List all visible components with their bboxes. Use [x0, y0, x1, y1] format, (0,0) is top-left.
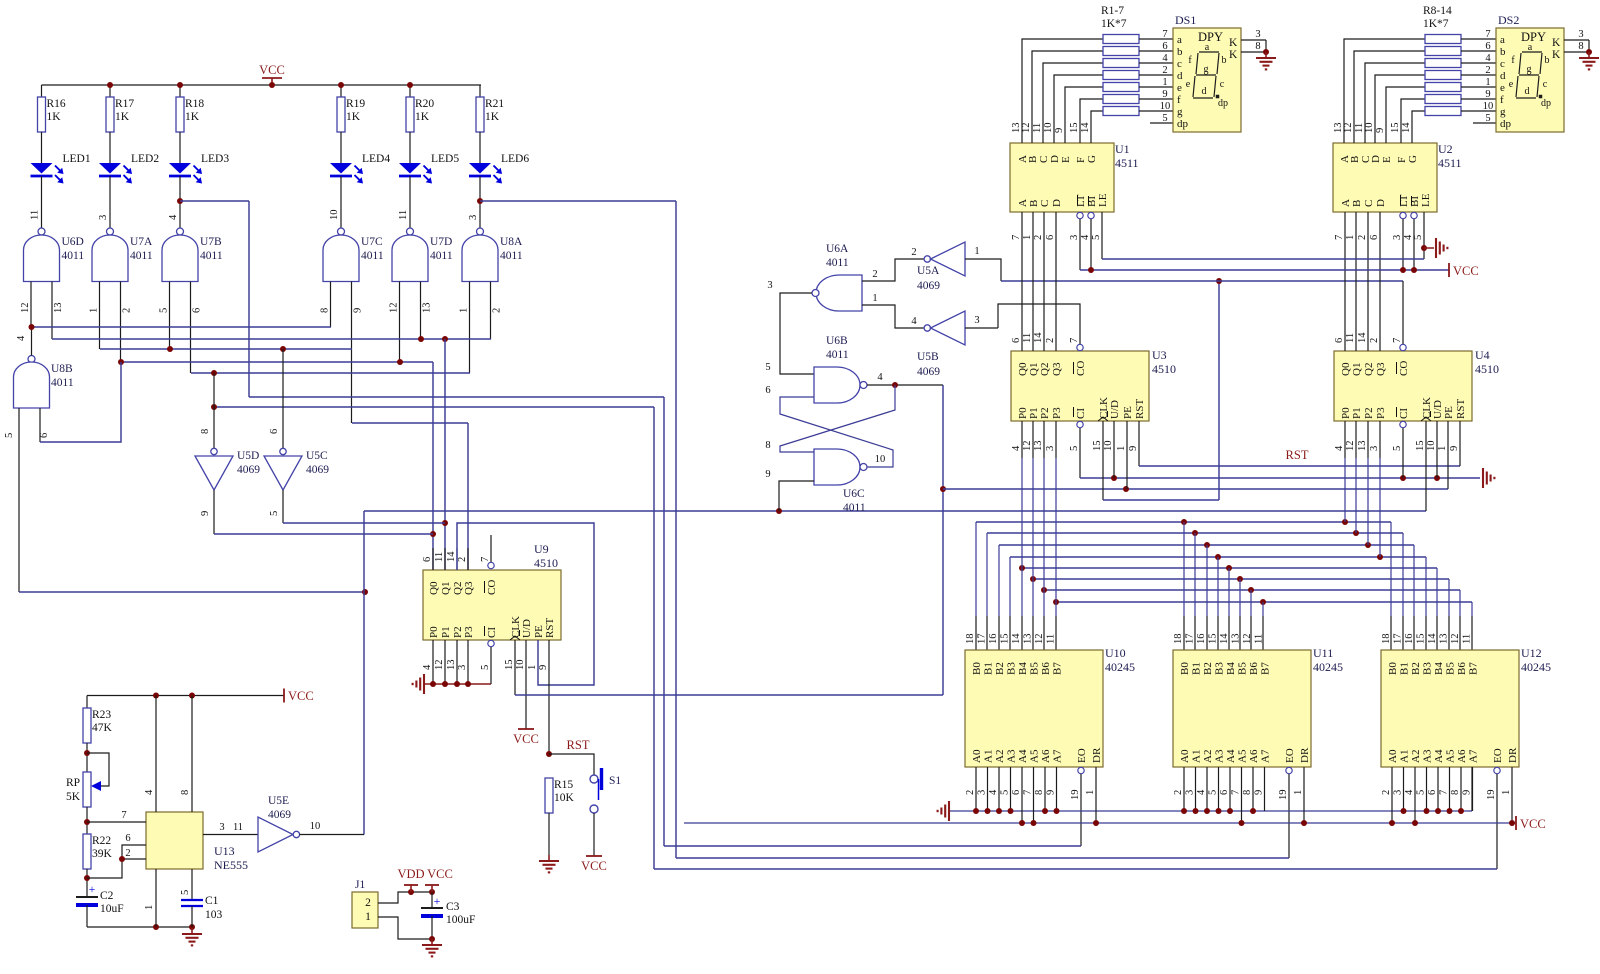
svg-text:DPY: DPY — [1198, 30, 1223, 44]
svg-text:K: K — [1552, 49, 1561, 61]
svg-text:10: 10 — [1043, 123, 1054, 134]
svg-text:10: 10 — [310, 821, 321, 832]
svg-text:1: 1 — [1162, 77, 1167, 88]
svg-text:1: 1 — [1022, 235, 1033, 240]
svg-text:K: K — [1552, 37, 1561, 49]
svg-text:f: f — [1177, 94, 1181, 106]
7-segment display DS1 — [1173, 28, 1241, 132]
svg-text:11: 11 — [1254, 634, 1265, 644]
svg-text:d: d — [1202, 86, 1207, 97]
svg-text:12: 12 — [1021, 123, 1032, 134]
data bus line 4 — [1022, 567, 1437, 569]
7-seg glyph DS2 — [1522, 51, 1542, 53]
svg-text:B6: B6 — [1456, 662, 1468, 675]
J1 pin 2 wire to VDD/VCC node — [378, 892, 432, 903]
U9 CLK wire — [514, 640, 516, 695]
svg-text:15: 15 — [1000, 634, 1011, 645]
ground — [1265, 52, 1267, 58]
svg-text:K: K — [1229, 49, 1238, 61]
svg-text:DS2: DS2 — [1498, 13, 1519, 27]
svg-text:EO: EO — [1492, 748, 1504, 763]
U3 CI stub — [1077, 421, 1083, 427]
svg-text:P3: P3 — [1375, 407, 1387, 419]
svg-text:1K: 1K — [185, 111, 200, 123]
svg-text:3: 3 — [1185, 790, 1196, 795]
svg-text:B0: B0 — [971, 662, 983, 675]
svg-text:U6A: U6A — [826, 243, 849, 255]
svg-text:7: 7 — [1334, 235, 1345, 240]
svg-text:dp: dp — [1177, 118, 1189, 130]
U10 EO bubble and wire — [1078, 767, 1084, 773]
buffer U12 40245 — [1381, 650, 1519, 767]
svg-text:4: 4 — [1196, 789, 1207, 795]
svg-text:U3: U3 — [1152, 348, 1167, 362]
svg-text:3: 3 — [767, 280, 772, 291]
svg-text:7: 7 — [1439, 790, 1450, 795]
svg-text:1K*7: 1K*7 — [1101, 18, 1127, 30]
svg-text:19: 19 — [1486, 790, 1497, 801]
svg-text:4011: 4011 — [500, 250, 523, 262]
svg-text:4510: 4510 — [1475, 362, 1499, 376]
U10 B4-B7 riser stubs — [1021, 616, 1023, 650]
node LED6 junction to vertical feed — [477, 198, 483, 204]
svg-text:13: 13 — [1023, 634, 1034, 645]
U5A input wire from U4 CO — [965, 259, 1001, 281]
data bus line 5 — [1033, 578, 1449, 580]
svg-text:5: 5 — [1413, 235, 1424, 240]
wires resistor network to DS1 — [1139, 38, 1173, 40]
resistor R22 39K — [83, 834, 91, 869]
svg-text:10: 10 — [1103, 441, 1114, 452]
svg-text:LED4: LED4 — [362, 153, 390, 165]
wire U5D input riser — [213, 373, 215, 448]
IC U2 4511 — [1333, 143, 1437, 212]
svg-text:B3: B3 — [1422, 662, 1434, 675]
wire dp stub DS1 — [1150, 122, 1173, 124]
svg-text:1: 1 — [527, 665, 538, 670]
svg-text:B6: B6 — [1040, 662, 1052, 675]
LED LED1 — [31, 163, 53, 174]
svg-text:4: 4 — [168, 214, 179, 220]
resistor R17 1K — [106, 97, 114, 132]
svg-text:4: 4 — [1404, 789, 1415, 795]
svg-text:16: 16 — [1196, 634, 1207, 645]
svg-text:1: 1 — [365, 911, 371, 923]
svg-text:6: 6 — [1162, 41, 1167, 52]
svg-text:3: 3 — [1069, 235, 1080, 240]
svg-text:G: G — [1086, 155, 1098, 163]
svg-text:6: 6 — [192, 308, 203, 313]
svg-text:7: 7 — [1231, 790, 1242, 795]
RP wiper loop wire — [87, 753, 109, 786]
U5E output wire — [300, 834, 364, 836]
svg-text:e: e — [1500, 82, 1505, 94]
ground — [1588, 52, 1590, 58]
svg-text:9: 9 — [1449, 446, 1460, 451]
svg-text:Q1: Q1 — [1351, 363, 1363, 376]
svg-text:A3: A3 — [1214, 749, 1226, 763]
svg-text:U6D: U6D — [62, 236, 84, 248]
svg-text:5: 5 — [1208, 790, 1219, 795]
svg-text:B1: B1 — [983, 662, 995, 675]
svg-text:a: a — [1205, 42, 1210, 53]
svg-text:8: 8 — [1450, 790, 1461, 795]
svg-text:12: 12 — [1022, 441, 1033, 452]
svg-text:R23: R23 — [92, 709, 111, 721]
svg-text:RP: RP — [66, 777, 80, 789]
svg-text:A6: A6 — [1248, 749, 1260, 763]
svg-text:18: 18 — [965, 634, 976, 645]
svg-text:6: 6 — [39, 433, 50, 438]
U9 Q2 to PE loop — [457, 523, 594, 685]
svg-text:7: 7 — [1162, 29, 1167, 40]
svg-text:7: 7 — [1069, 338, 1080, 343]
svg-text:a: a — [1500, 34, 1505, 46]
IC U9 4510 — [423, 570, 561, 640]
svg-text:P1: P1 — [1351, 407, 1363, 419]
svg-text:J1: J1 — [355, 879, 365, 891]
svg-text:EO: EO — [1284, 748, 1296, 763]
ground stub U2 LE — [1424, 247, 1434, 249]
svg-text:5: 5 — [4, 433, 15, 438]
svg-text:C1: C1 — [205, 895, 219, 907]
svg-text:15: 15 — [1416, 634, 1427, 645]
svg-text:3: 3 — [457, 665, 468, 670]
NAND gate U6B 4011 (right facing) — [814, 367, 860, 403]
svg-text:1: 1 — [1085, 790, 1096, 795]
wire U5E clock riser — [363, 511, 365, 835]
svg-text:A6: A6 — [1040, 749, 1052, 763]
svg-text:B3: B3 — [1214, 662, 1226, 675]
SR latch cross wire 1 — [780, 385, 895, 452]
enable line from U5D net riser to U12 EO — [653, 407, 655, 869]
svg-text:A0: A0 — [1179, 749, 1191, 763]
wire LED5 to gate U7D — [409, 176, 411, 228]
svg-text:2: 2 — [1357, 235, 1368, 240]
svg-text:Q2: Q2 — [1363, 363, 1375, 376]
NE555 bottom rail — [87, 926, 192, 928]
U4 RST leg — [1459, 421, 1461, 466]
U2 BI bubble and leg — [1411, 212, 1417, 218]
ground — [948, 801, 950, 821]
svg-text:19: 19 — [1070, 790, 1081, 801]
svg-text:3: 3 — [1045, 446, 1056, 451]
svg-text:U7A: U7A — [130, 236, 153, 248]
wire LED3 to gate U7B — [179, 176, 181, 228]
wire U5C.5 to Q1 node — [283, 522, 445, 524]
svg-text:A0: A0 — [971, 749, 983, 763]
U1 data input legs from U3 — [1021, 212, 1023, 351]
svg-text:B3: B3 — [1006, 662, 1018, 675]
svg-text:A1: A1 — [983, 750, 995, 763]
U9 Q pin black stubs — [432, 548, 434, 570]
wire LED1 to gate U6D — [41, 176, 43, 228]
svg-text:12: 12 — [1345, 441, 1356, 452]
svg-text:B5: B5 — [1445, 662, 1457, 675]
U2 LE leg — [1423, 212, 1425, 259]
resistor R20 1K — [406, 97, 414, 132]
svg-text:g: g — [1177, 106, 1183, 118]
svg-text:9: 9 — [1375, 128, 1386, 133]
svg-text:P2: P2 — [1363, 407, 1375, 419]
svg-text:VCC: VCC — [1520, 817, 1546, 831]
U13 pin 2 wire — [87, 859, 146, 878]
ground — [191, 928, 193, 934]
svg-text:9: 9 — [200, 511, 211, 516]
svg-text:U5D: U5D — [237, 450, 259, 462]
svg-text:e: e — [1509, 79, 1514, 90]
wire R21 to LED6 — [479, 132, 481, 163]
svg-text:LED5: LED5 — [431, 153, 459, 165]
U10 B0-B3 risers — [975, 522, 977, 616]
svg-text:B7: B7 — [1468, 662, 1480, 675]
U9 U/D to VCC — [525, 640, 527, 729]
VCC rail NE555 — [87, 695, 284, 697]
svg-text:8: 8 — [1255, 41, 1260, 52]
svg-text:Q2: Q2 — [1039, 363, 1051, 376]
svg-text:U8B: U8B — [51, 363, 73, 375]
svg-text:4: 4 — [1162, 53, 1168, 64]
svg-text:d: d — [1500, 70, 1506, 82]
svg-text:13: 13 — [422, 303, 433, 314]
wire VCC rail to R17 — [109, 85, 111, 97]
svg-text:U7D: U7D — [430, 236, 452, 248]
svg-text:R15: R15 — [554, 779, 573, 791]
U1 BI bubble and leg — [1088, 212, 1094, 218]
svg-text:P2: P2 — [1039, 407, 1051, 419]
svg-text:DR: DR — [1507, 747, 1519, 763]
svg-text:6: 6 — [1485, 41, 1490, 52]
svg-text:U5A: U5A — [917, 265, 940, 277]
node LED3 junction to vertical feed — [177, 198, 183, 204]
svg-text:9: 9 — [1462, 790, 1473, 795]
U5B input wire from U3 CO — [965, 327, 998, 329]
svg-text:4069: 4069 — [306, 464, 329, 476]
svg-text:4011: 4011 — [826, 257, 849, 269]
svg-text:16: 16 — [1404, 634, 1415, 645]
svg-text:40245: 40245 — [1313, 660, 1343, 674]
svg-text:c: c — [1500, 58, 1505, 70]
svg-text:S1: S1 — [609, 775, 621, 787]
svg-text:U13: U13 — [214, 844, 235, 858]
svg-text:U/D: U/D — [521, 619, 533, 638]
svg-text:4011: 4011 — [826, 349, 849, 361]
svg-text:3: 3 — [1578, 29, 1583, 40]
connector J1 — [352, 892, 378, 928]
svg-text:A5: A5 — [1445, 749, 1457, 763]
svg-text:6: 6 — [1427, 790, 1438, 795]
wire LE net U1-U2 — [1102, 258, 1424, 260]
svg-text:4: 4 — [988, 789, 999, 795]
wire LED2 to gate U7A — [109, 176, 111, 228]
svg-text:5: 5 — [1069, 446, 1080, 451]
svg-text:10: 10 — [329, 210, 340, 221]
svg-text:B5: B5 — [1237, 662, 1249, 675]
svg-text:9: 9 — [353, 308, 364, 313]
svg-text:RST: RST — [1286, 448, 1309, 462]
svg-text:9: 9 — [1162, 89, 1167, 100]
data bus line 1 — [987, 532, 1403, 534]
svg-text:dp: dp — [1500, 118, 1512, 130]
svg-text:A4: A4 — [1433, 749, 1445, 763]
svg-text:g: g — [1500, 106, 1506, 118]
svg-text:B6: B6 — [1248, 662, 1260, 675]
svg-text:4069: 4069 — [237, 464, 260, 476]
svg-text:A4: A4 — [1225, 749, 1237, 763]
inverter U5B 4069 (left facing) — [924, 325, 930, 331]
NAND gate U7B 4011 — [177, 228, 184, 235]
svg-text:LE: LE — [1097, 193, 1109, 207]
svg-text:Q1: Q1 — [440, 582, 452, 595]
DR legs to VCC rail — [1095, 767, 1097, 823]
svg-text:14: 14 — [1033, 332, 1044, 343]
NAND gate U8A 4011 — [477, 228, 484, 235]
wire R15 to ground — [548, 813, 550, 855]
svg-text:c: c — [1177, 58, 1182, 70]
svg-text:10: 10 — [515, 660, 526, 671]
svg-text:DS1: DS1 — [1175, 13, 1196, 27]
svg-text:C2: C2 — [100, 890, 114, 902]
wire U4 CO to U5A input — [1001, 280, 1403, 282]
svg-text:10uF: 10uF — [100, 903, 124, 915]
svg-text:+: + — [434, 894, 441, 908]
svg-text:3: 3 — [1392, 235, 1403, 240]
svg-text:2: 2 — [965, 790, 976, 795]
U1 LT bubble and leg — [1077, 212, 1083, 218]
data bus line 6 — [1044, 589, 1460, 591]
svg-text:DPY: DPY — [1521, 30, 1546, 44]
svg-text:13: 13 — [1357, 441, 1368, 452]
VCC power rail top-left — [42, 84, 482, 86]
svg-text:3: 3 — [1393, 790, 1404, 795]
U2 LT bubble and leg — [1400, 212, 1406, 218]
svg-text:5: 5 — [1000, 790, 1011, 795]
LED LED2 — [99, 163, 121, 174]
U13 pin 1 leg — [155, 869, 157, 927]
svg-text:A7: A7 — [1468, 749, 1480, 763]
svg-text:Q3: Q3 — [1375, 362, 1387, 376]
svg-text:U8A: U8A — [500, 236, 523, 248]
U6B output wire — [867, 384, 943, 386]
svg-text:A7: A7 — [1260, 749, 1272, 763]
svg-text:G: G — [1407, 155, 1419, 163]
buffer U10 40245 — [965, 650, 1103, 767]
wire VCC rail to R20 — [409, 85, 411, 97]
svg-text:DR: DR — [1091, 747, 1103, 763]
svg-text:R22: R22 — [92, 835, 111, 847]
svg-text:11: 11 — [233, 822, 243, 833]
svg-text:5: 5 — [180, 890, 191, 895]
wire U5C output — [282, 490, 284, 523]
svg-text:1: 1 — [1501, 790, 1512, 795]
svg-text:A5: A5 — [1029, 749, 1041, 763]
svg-text:A7: A7 — [1052, 749, 1064, 763]
svg-text:15: 15 — [1415, 441, 1426, 452]
U9 RST wire to R15 node — [548, 640, 550, 754]
svg-text:A5: A5 — [1237, 749, 1249, 763]
U11 A-pin legs — [1183, 767, 1185, 811]
svg-text:A6: A6 — [1456, 749, 1468, 763]
svg-text:13: 13 — [53, 303, 64, 314]
VCC symbol top rail — [271, 78, 273, 85]
U9 CI stub to ground rail — [488, 640, 494, 646]
svg-text:4011: 4011 — [51, 377, 74, 389]
svg-text:f: f — [1500, 94, 1504, 106]
wire U5C input riser — [282, 349, 284, 448]
resistor R15 10K — [545, 778, 553, 813]
NAND gate U7D 4011 — [407, 228, 414, 235]
svg-text:A1: A1 — [1191, 750, 1203, 763]
svg-text:B4: B4 — [1017, 662, 1029, 675]
svg-text:8: 8 — [200, 429, 211, 434]
U11 B risers — [1183, 522, 1185, 616]
svg-text:B2: B2 — [994, 662, 1006, 675]
svg-text:B4: B4 — [1225, 662, 1237, 675]
svg-text:12: 12 — [1034, 634, 1045, 645]
svg-text:A0: A0 — [1387, 749, 1399, 763]
switch S1 — [590, 775, 598, 783]
vertical feed to U9.Q0 — [432, 362, 434, 570]
node RST junction — [546, 751, 552, 757]
svg-text:9: 9 — [1128, 446, 1139, 451]
svg-text:5: 5 — [1162, 113, 1167, 124]
svg-text:C: C — [1363, 200, 1375, 207]
svg-text:R16: R16 — [47, 98, 66, 110]
svg-text:B5: B5 — [1029, 662, 1041, 675]
svg-text:RST: RST — [567, 738, 590, 752]
svg-text:3: 3 — [977, 790, 988, 795]
svg-text:2: 2 — [125, 848, 130, 859]
IC U13 NE555 — [146, 812, 203, 869]
svg-text:4510: 4510 — [1152, 362, 1176, 376]
svg-text:4011: 4011 — [130, 250, 153, 262]
VDD symbol — [410, 885, 412, 892]
svg-text:A3: A3 — [1422, 749, 1434, 763]
svg-text:2: 2 — [1173, 790, 1184, 795]
svg-text:4011: 4011 — [430, 250, 453, 262]
svg-text:E: E — [1060, 156, 1072, 163]
resistor R19 1K — [337, 97, 345, 132]
vertical feed to U9.Q3 — [467, 423, 469, 570]
svg-text:U2: U2 — [1438, 142, 1453, 156]
svg-text:11: 11 — [398, 210, 409, 220]
svg-text:RST: RST — [1455, 399, 1467, 419]
svg-text:7: 7 — [1023, 790, 1034, 795]
svg-text:U5E: U5E — [268, 795, 289, 807]
svg-text:2: 2 — [122, 308, 133, 313]
svg-text:VCC: VCC — [581, 859, 607, 873]
svg-text:4069: 4069 — [268, 809, 291, 821]
svg-text:13: 13 — [1231, 634, 1242, 645]
NAND gate U6C 4011 (right facing) — [814, 449, 860, 485]
wire LED4 to gate U7C — [340, 176, 342, 228]
svg-text:10: 10 — [1483, 101, 1494, 112]
svg-text:4011: 4011 — [200, 250, 223, 262]
wire U8B.5 long run — [19, 591, 365, 593]
U12 A7 leg end of ground rail — [1471, 767, 1473, 811]
SR latch cross wire 2 — [780, 397, 893, 467]
svg-text:1: 1 — [1437, 446, 1448, 451]
svg-text:1: 1 — [144, 905, 155, 910]
svg-text:VCC: VCC — [1453, 264, 1479, 278]
svg-text:15: 15 — [1208, 634, 1219, 645]
svg-text:e: e — [1177, 82, 1182, 94]
svg-text:1K: 1K — [346, 111, 361, 123]
svg-text:7: 7 — [480, 557, 491, 562]
svg-text:8: 8 — [1242, 790, 1253, 795]
U3 RST leg and RST net — [1138, 421, 1140, 466]
svg-text:VCC: VCC — [259, 63, 285, 77]
